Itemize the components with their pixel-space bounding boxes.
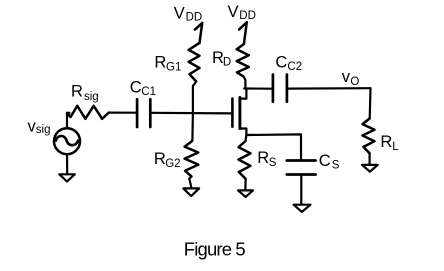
wire drain node to CC2 [244, 87, 272, 89]
voltage source vsig sine wave [56, 136, 78, 145]
resistor RL [363, 118, 375, 153]
resistor Rsig [67, 106, 109, 119]
svg-text:v: v [342, 68, 351, 86]
svg-text:O: O [350, 76, 359, 88]
resistor RG1 [189, 43, 200, 82]
svg-text:R: R [380, 133, 392, 151]
svg-text:S: S [332, 160, 340, 172]
resistor RD [237, 44, 249, 77]
resistor RG2 [185, 141, 199, 177]
transistor Q1 channel bar [238, 98, 241, 129]
svg-text:V: V [174, 5, 185, 23]
svg-text:V: V [228, 3, 239, 21]
wire vO corner down to RL [369, 88, 372, 118]
svg-text:L: L [392, 141, 399, 153]
wire RL to ground [369, 153, 371, 164]
supply arrow VDD (right) [239, 22, 247, 44]
svg-text:sig: sig [36, 124, 51, 136]
ground (below RL) [362, 165, 378, 172]
ground (below vsig) [59, 174, 75, 181]
wire RG2 to ground [189, 176, 191, 186]
wire CS to ground [300, 175, 302, 205]
supply arrow VDD (left) [195, 23, 202, 43]
wire bias node to RG2 [191, 113, 194, 141]
svg-text:Figure 5: Figure 5 [184, 238, 246, 259]
wire RD to drain node [244, 77, 246, 89]
resistor RS [239, 141, 251, 179]
voltage source vsig circle [54, 128, 80, 154]
capacitor CS [287, 161, 316, 175]
transistor Q1 drain lead [240, 89, 247, 99]
svg-text:S: S [269, 157, 277, 169]
svg-text:R: R [71, 83, 83, 101]
svg-text:G1: G1 [166, 61, 181, 73]
ground (below RS) [238, 190, 253, 197]
svg-text:D: D [223, 56, 231, 68]
wire vsig bottom to ground [66, 154, 68, 174]
svg-text:R: R [257, 149, 269, 167]
svg-text:G2: G2 [165, 158, 180, 170]
svg-text:DD: DD [239, 10, 256, 22]
wire source node to RS [244, 135, 247, 141]
wire CC1 to gate (through bias node) [152, 112, 232, 115]
wire Rsig to CC1 [109, 111, 136, 113]
wire CC2 to vO corner [288, 87, 371, 90]
svg-text:R: R [154, 150, 166, 168]
capacitor CC2 [273, 75, 287, 102]
svg-text:R: R [154, 54, 166, 72]
svg-text:C: C [130, 79, 142, 97]
wire vsig top to Rsig [67, 113, 70, 128]
svg-text:DD: DD [186, 12, 203, 24]
transistor Q1 gate bar [231, 99, 234, 127]
svg-text:C2: C2 [287, 61, 302, 73]
svg-text:C1: C1 [141, 86, 156, 98]
svg-text:C: C [275, 53, 287, 71]
wire source node to CS [246, 134, 301, 159]
transistor Q1 source lead [240, 129, 247, 136]
wire RS to ground [244, 179, 246, 190]
ground (below RG2) [183, 188, 199, 196]
svg-text:C: C [319, 152, 331, 170]
wire RG1 to bias node [193, 82, 196, 113]
svg-text:sig: sig [84, 91, 99, 103]
capacitor CC1 [137, 99, 150, 127]
ground (below CS) [294, 205, 311, 212]
